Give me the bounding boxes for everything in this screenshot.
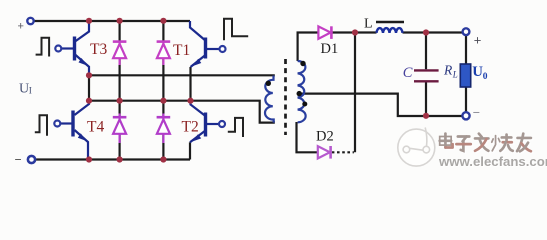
pulse symbol T2 drive (228, 118, 243, 137)
load resistor RL (460, 64, 470, 87)
svg-text:T2: T2 (182, 119, 199, 136)
junction T3 collector / top rail (86, 18, 92, 24)
wire dashed D2 cathode link (332, 151, 354, 153)
pulse symbol T3 drive (36, 38, 50, 57)
node center tap dot (297, 91, 302, 96)
transformer secondary winding (298, 61, 306, 122)
output terminal + (463, 28, 470, 35)
svg-text:0: 0 (483, 72, 488, 82)
junction diode column A / bottom rail (117, 156, 123, 162)
svg-text:T3: T3 (90, 41, 107, 58)
inductor L (377, 28, 403, 33)
svg-text:R: R (443, 63, 453, 78)
svg-text:www.elecfans.com: www.elecfans.com (438, 154, 547, 169)
wire cathode vertical D1-D2 (354, 33, 356, 153)
input terminal - (28, 156, 35, 163)
wire diode column B (162, 21, 164, 160)
wire center tap to bottom rail (298, 94, 463, 116)
base terminal circle T3 (55, 46, 61, 52)
diode D1 (318, 26, 331, 39)
transformer primary winding (265, 76, 274, 123)
wire upper bridge mid line (89, 75, 274, 76)
svg-text:D2: D2 (316, 129, 334, 145)
烧 (492, 135, 513, 151)
发 (475, 134, 488, 151)
子 (456, 137, 470, 151)
svg-text:D1: D1 (321, 41, 339, 57)
diode DT4 (antiparallel, col A bottom) (113, 114, 127, 144)
base terminal circle T4 (54, 121, 60, 127)
polarity dot secondary bottom (302, 102, 307, 107)
svg-text:L: L (452, 70, 458, 80)
junction diode column A / lower mid line (117, 98, 123, 104)
polarity dot secondary top (300, 61, 305, 66)
svg-text:U: U (19, 82, 29, 97)
电 (440, 134, 453, 148)
友 (517, 134, 531, 152)
polarity dot primary (266, 81, 271, 86)
svg-text:U: U (472, 64, 483, 80)
junction diode column A / top rail (117, 18, 123, 24)
inductor core bar (376, 21, 404, 24)
pulse symbol T1 drive (224, 19, 248, 41)
watermark text 电子发烧友 (440, 134, 532, 153)
svg-text:L: L (364, 17, 373, 32)
diode D2 (318, 146, 331, 159)
svg-text:I: I (29, 87, 32, 97)
node D1 cathode junction (352, 29, 358, 35)
transistor T3 (62, 21, 90, 75)
junction capacitor bottom / output return (423, 113, 429, 119)
wire capacitor branch (425, 33, 427, 116)
svg-text:+: + (18, 20, 24, 32)
wire lower bridge mid line (89, 101, 274, 123)
junction capacitor top / output rail (423, 29, 429, 35)
main wires (34, 21, 466, 160)
svg-text:T4: T4 (87, 119, 104, 136)
transformer core (284, 59, 287, 135)
junction diode column B / top rail (160, 18, 166, 24)
capacitor C plates (414, 70, 439, 81)
junction T1 emitter T2 collector / lower mid line (187, 98, 193, 104)
input terminal + (27, 18, 33, 24)
junction T3 emitter / upper mid line (86, 72, 92, 78)
wire left leg junction segment (88, 75, 90, 100)
diode DT3 (antiparallel, col A top) (113, 41, 127, 65)
svg-text:T1: T1 (173, 42, 190, 59)
transistor T2 (190, 101, 219, 143)
transistor T4 (60, 101, 89, 160)
watermark logo circle (398, 128, 435, 167)
wire load branch (465, 35, 467, 112)
diode DT2 (antiparallel, col B bottom) (157, 114, 171, 144)
svg-text:C: C (403, 65, 413, 81)
base terminal circle T1 (220, 46, 226, 52)
wire bottom rail (35, 158, 190, 160)
pulse symbol T4 drive (35, 115, 47, 136)
junction T4 collector / lower mid line (86, 98, 92, 104)
svg-text:+: + (474, 32, 482, 47)
wire right leg T1 emitter to junction (189, 67, 191, 101)
wire diode column A (118, 21, 120, 160)
svg-text:−: − (473, 105, 480, 119)
wire D1 to L (332, 31, 377, 33)
junction T4 emitter / bottom rail (86, 156, 92, 162)
wire right leg T2 emitter to bottom rail (189, 142, 191, 159)
wire top rail (34, 20, 190, 22)
base terminal circle T2 (219, 121, 225, 127)
svg-text:−: − (15, 153, 22, 167)
junction diode column B / lower mid line (160, 98, 166, 104)
wire L to plus terminal (403, 31, 463, 33)
wire secondary bottom to D2 (297, 122, 318, 152)
junction diode column B / bottom rail (160, 156, 166, 162)
diode DT1 (antiparallel, col B top) (157, 41, 171, 65)
wire secondary top to D1 (298, 33, 319, 62)
output terminal - (462, 112, 469, 119)
transistor T1 (190, 21, 219, 67)
